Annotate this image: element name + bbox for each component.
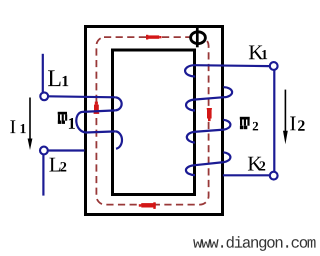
wire from coil to K1 — [194, 64, 270, 67]
flux symbol Φ — [191, 28, 206, 47]
flux path dashed loop — [96, 37, 208, 205]
iron core outer rectangle — [86, 27, 223, 215]
coil right half-loop 2 — [116, 131, 122, 148]
lead wire above L1 — [42, 54, 44, 92]
coil right half-loop 1 — [223, 87, 232, 97]
terminal K1 — [270, 62, 278, 70]
terminal L1 — [40, 92, 48, 100]
label K2 — [248, 157, 265, 171]
watermark www.diangon.com — [193, 236, 315, 251]
winding W2 coil on right leg — [185, 65, 270, 175]
flux arrow right leg (pointing down) — [207, 108, 212, 121]
terminal K2 — [270, 172, 278, 180]
coil right half-loop 3 — [223, 152, 230, 162]
label L1 — [48, 70, 68, 86]
coil right half-loop 2 — [223, 120, 230, 130]
flux arrow bottom (pointing left) — [139, 202, 156, 209]
coil right half-loop 1 — [116, 97, 122, 110]
coil left half-loop 4 — [186, 165, 195, 175]
wire turn crossing leg — [194, 162, 224, 165]
label K1 — [249, 45, 267, 59]
wire turn crossing leg — [194, 130, 224, 132]
wire turn crossing leg — [86, 131, 116, 132]
coil left half-loop — [76, 112, 86, 133]
iron core inner window rectangle — [113, 50, 195, 195]
wire from coil to L2 — [48, 149, 85, 151]
wire turn crossing leg — [194, 97, 224, 99]
coil left half-loop 1 — [185, 65, 195, 76]
label W1 (blocky W glyph with subscript 1) — [58, 112, 75, 129]
wire from coil to K2 — [223, 174, 269, 176]
label L2 — [49, 158, 66, 172]
terminal L2 — [40, 147, 48, 155]
label I1 — [10, 120, 25, 133]
lead wire below L2 — [42, 155, 44, 196]
wire from L1 to coil — [48, 96, 115, 97]
flux arrow left leg (pointing up) — [94, 102, 100, 114]
label I2 — [290, 117, 304, 131]
coil left half-loop 3 — [187, 132, 195, 143]
label W2 (blocky W glyph with subscript 2) — [240, 117, 258, 131]
coil left half-loop 2 — [186, 100, 195, 111]
current arrow I2 — [283, 90, 288, 145]
wire connecting K1 to K2 — [273, 70, 275, 171]
current arrow I1 — [28, 98, 33, 151]
flux arrow top (pointing right) — [146, 35, 162, 40]
winding W1 coil on left leg — [48, 96, 122, 150]
wire turn crossing leg — [83, 110, 116, 112]
